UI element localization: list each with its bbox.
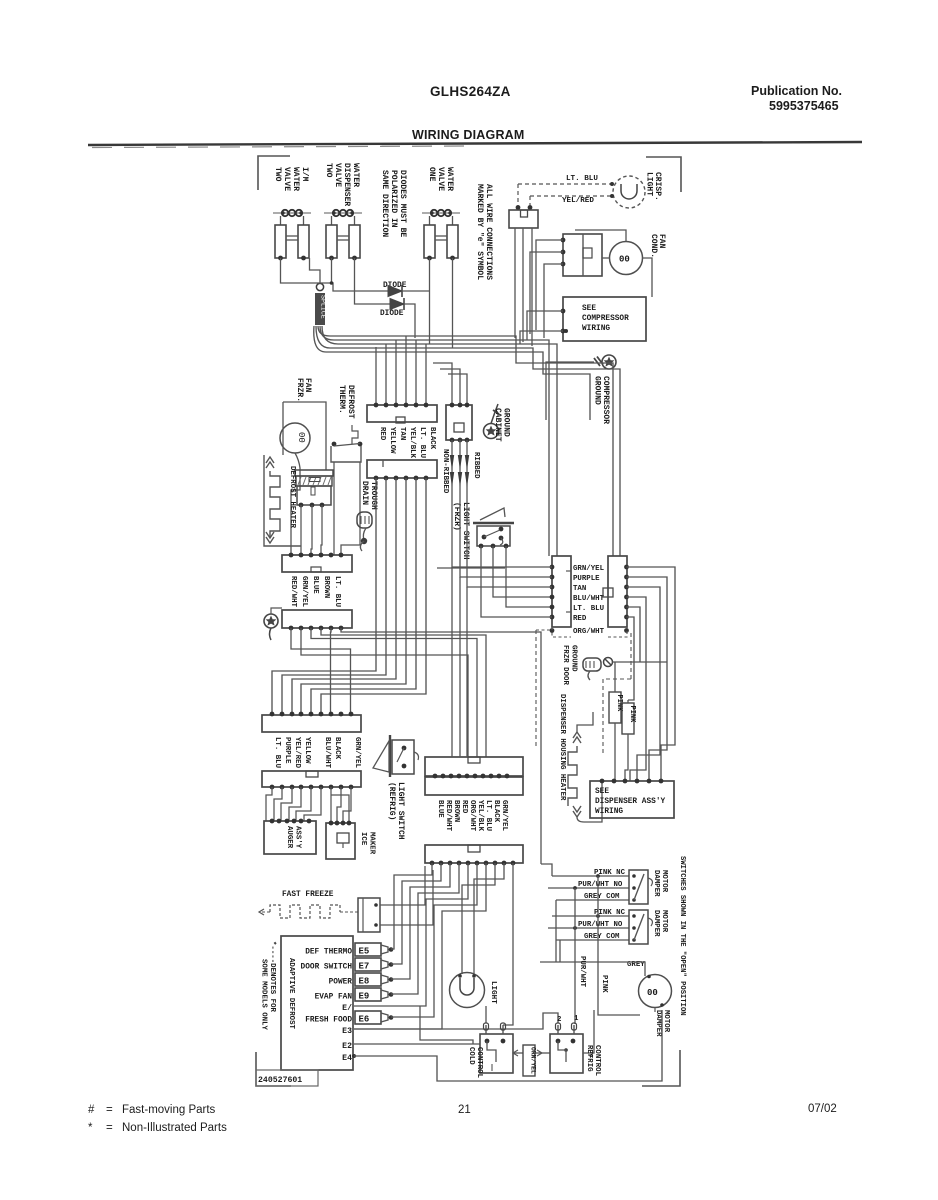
svg-text:TWO: TWO: [273, 167, 282, 182]
svg-text:YEL/RED: YEL/RED: [562, 197, 594, 205]
svg-text:ADAPTIVE DEFROST: ADAPTIVE DEFROST: [287, 958, 295, 1030]
light switch frzr: [473, 508, 514, 548]
svg-text:DISPENSER ASS'Y: DISPENSER ASS'Y: [595, 798, 666, 806]
connector block5 10-pin: [425, 757, 523, 795]
svg-text:DEFROST: DEFROST: [346, 385, 355, 419]
svg-text:RIBBED: RIBBED: [472, 452, 480, 479]
frame corner bottom-left: [256, 1052, 291, 1086]
svg-text:DAMPER: DAMPER: [654, 1010, 662, 1037]
svg-text:WATER: WATER: [445, 167, 454, 191]
svg-text:SOME MODELS ONLY: SOME MODELS ONLY: [260, 959, 268, 1031]
svg-text:LT. BLU: LT. BLU: [418, 427, 426, 458]
svg-text:*: *: [88, 1122, 93, 1134]
svg-text:TAN: TAN: [573, 585, 586, 593]
wires block4 to auger and ice maker: [266, 787, 351, 823]
svg-text:240527601: 240527601: [258, 1076, 302, 1085]
wire valve2 right pin to diode2: [355, 258, 391, 304]
wire valve2 left pin junction: [331, 258, 333, 283]
svg-text:LT. BLU: LT. BLU: [484, 800, 492, 831]
auger assembly box: [264, 819, 316, 854]
svg-text:COMPRESSOR: COMPRESSOR: [582, 315, 629, 323]
svg-text:WIRING: WIRING: [582, 325, 610, 333]
wire valve3 right pin drop: [452, 258, 454, 348]
svg-text:MOTOR: MOTOR: [660, 910, 668, 933]
svg-text:AUGER: AUGER: [285, 826, 293, 849]
cond fan feed wires: [561, 238, 566, 243]
diode D1: [383, 282, 430, 297]
svg-text:LT. BLU: LT. BLU: [273, 737, 281, 768]
terminal E7: [301, 958, 394, 972]
svg-text:GRN/YEL: GRN/YEL: [500, 800, 508, 832]
svg-text:GLHS264ZA: GLHS264ZA: [430, 84, 511, 99]
svg-text:DEFROST HEATER: DEFROST HEATER: [288, 466, 296, 529]
svg-text:I/M: I/M: [300, 167, 309, 182]
connector A 6-pin: [367, 403, 437, 423]
frzr door ground: [583, 658, 667, 681]
svg-text:E9: E9: [359, 992, 370, 1002]
wires heater pins to block1: [300, 505, 302, 555]
svg-text:COLD: COLD: [467, 1047, 475, 1065]
solenoid valve V2 water dispenser valve two: [324, 210, 362, 261]
svg-text:TWO: TWO: [324, 163, 333, 178]
defrost heater element assembly: [295, 470, 333, 507]
frzr fan motor: [280, 402, 326, 555]
wires crisp connector to bundle: [514, 228, 516, 338]
connector block3 9-pin: [262, 712, 361, 732]
svg-text:VALVE: VALVE: [282, 167, 291, 191]
svg-text:ORN/YEL: ORN/YEL: [530, 1047, 537, 1074]
wires block2 outgoing: [291, 628, 541, 864]
svg-text:Publication No.: Publication No.: [751, 84, 842, 98]
crisp light lamp: [610, 176, 645, 208]
svg-text:LIGHT: LIGHT: [645, 172, 654, 196]
svg-text:GRN/YEL: GRN/YEL: [300, 576, 308, 608]
svg-text:WATER: WATER: [291, 167, 300, 191]
svg-text:Non-Illustrated Parts: Non-Illustrated Parts: [122, 1122, 227, 1134]
wire E2 run: [354, 1043, 480, 1045]
svg-text:BLACK: BLACK: [333, 737, 341, 760]
splice label PINK 1: [609, 662, 623, 781]
svg-text:YELLOW: YELLOW: [303, 737, 311, 764]
solenoid valve V1 I/M water valve two: [273, 210, 311, 261]
svg-text:FAN: FAN: [303, 378, 312, 393]
svg-text:POWER: POWER: [329, 979, 353, 987]
svg-text:WIRING DIAGRAM: WIRING DIAGRAM: [412, 128, 525, 142]
wire E4 long run: [352, 1054, 356, 1058]
compressor ground ring terminal: [546, 355, 616, 420]
svg-text:POLARIZED IN: POLARIZED IN: [389, 170, 398, 228]
connector C drain trough: [367, 460, 437, 480]
dispenser housing heater zigzag: [568, 712, 602, 822]
connector block4 9-pin: [262, 771, 361, 789]
svg-text:THERM.: THERM.: [337, 385, 346, 414]
svg-text:MARKED BY "e" SYMBOL: MARKED BY "e" SYMBOL: [475, 184, 484, 280]
svg-text:RED: RED: [573, 615, 587, 623]
svg-text:RED/WHT: RED/WHT: [444, 800, 452, 832]
svg-text:PURPLE: PURPLE: [283, 737, 291, 764]
svg-text:07/02: 07/02: [808, 1103, 837, 1115]
svg-text:REFRIG: REFRIG: [585, 1045, 593, 1072]
main harness bundle: [314, 326, 620, 556]
wires out of door connector staircase: [627, 567, 676, 781]
svg-text:WIRING: WIRING: [595, 808, 623, 816]
svg-text:YELLOW: YELLOW: [388, 427, 396, 454]
crisp light connector: [509, 210, 538, 228]
fast freeze connector: [358, 898, 380, 932]
defrost thermostat: [331, 425, 362, 555]
svg-text:BLUE: BLUE: [311, 576, 319, 594]
center spine to block3: [272, 478, 426, 714]
svg-text:DIODE: DIODE: [380, 310, 404, 318]
dispenser housing dashed boundary: [536, 630, 631, 755]
wire valve3 left pin drop: [429, 258, 431, 344]
part number 240527601: [256, 1070, 318, 1086]
svg-text:CONTROL: CONTROL: [593, 1045, 601, 1077]
svg-text:ORG/WHT: ORG/WHT: [573, 628, 605, 636]
wire valve1 left pin to diode1: [281, 258, 389, 291]
svg-text:VALVE: VALVE: [333, 163, 342, 187]
svg-text:WATER: WATER: [351, 163, 360, 187]
svg-text:21: 21: [458, 1104, 471, 1116]
svg-text:SWITCHES SHOWN IN THE "OPEN" P: SWITCHES SHOWN IN THE "OPEN" POSITION: [678, 856, 686, 1016]
svg-text:E5: E5: [359, 947, 370, 957]
title underline rule: [88, 142, 862, 145]
damper motor: [639, 975, 672, 1013]
frame corner top-right: [646, 157, 681, 192]
wires feeding damper switches: [541, 864, 600, 962]
svg-text:MOTOR: MOTOR: [660, 870, 668, 893]
splice symbol: [315, 283, 327, 325]
solenoid valve V3 water valve one: [422, 210, 460, 261]
svg-text:SEE: SEE: [595, 788, 609, 796]
svg-text:FRZR.: FRZR.: [295, 378, 304, 402]
svg-text:LT. BLU: LT. BLU: [333, 576, 341, 607]
svg-text:GROUND: GROUND: [570, 645, 578, 672]
wire E3 run: [354, 1013, 558, 1029]
svg-text:00: 00: [296, 432, 306, 443]
svg-text:DAMPER: DAMPER: [652, 870, 660, 897]
svg-text:DEF THERMO: DEF THERMO: [305, 949, 352, 957]
frame corner bottom-right: [642, 1050, 680, 1086]
svg-text:VALVE: VALVE: [436, 167, 445, 191]
svg-text:RED: RED: [378, 427, 386, 441]
cold control thermostat: [480, 1023, 513, 1073]
svg-text:00: 00: [619, 255, 630, 265]
svg-text:DOOR SWITCH: DOOR SWITCH: [301, 964, 353, 972]
svg-text:DRAIN: DRAIN: [360, 481, 369, 505]
svg-text:5995375465: 5995375465: [769, 99, 839, 113]
svg-text:LT. BLU: LT. BLU: [566, 175, 598, 183]
ice maker box: [326, 821, 355, 859]
wires block6 to E terminals and loads: [354, 863, 513, 1029]
svg-text:BROWN: BROWN: [452, 800, 460, 822]
svg-text:PINK: PINK: [600, 975, 608, 993]
svg-text:MOTOR: MOTOR: [662, 1010, 670, 1033]
svg-text:GRN/YEL: GRN/YEL: [353, 737, 361, 769]
connector block1: [282, 553, 352, 572]
svg-text:YEL/BLK: YEL/BLK: [476, 800, 484, 832]
drain trough heater coil: [357, 512, 372, 551]
light switch frzr wires: [480, 546, 482, 612]
defrost ground terminal: [264, 608, 282, 640]
svg-text:DISPENSER HOUSING HEATER: DISPENSER HOUSING HEATER: [558, 694, 566, 801]
svg-text:NON-RIBBED: NON-RIBBED: [441, 449, 449, 494]
cond fan motor: [575, 230, 652, 297]
svg-text:BLACK: BLACK: [492, 800, 500, 823]
connector block2: [282, 610, 352, 630]
svg-text:BLU/WHT: BLU/WHT: [323, 737, 331, 769]
svg-text:YEL/BLK: YEL/BLK: [408, 427, 416, 459]
bundle drops to connector B: [433, 363, 467, 404]
svg-text:FRESH FOOD: FRESH FOOD: [305, 1017, 352, 1025]
svg-text:PURPLE: PURPLE: [573, 575, 600, 583]
svg-text:=: =: [106, 1104, 113, 1116]
svg-text:E/: E/: [342, 1003, 352, 1013]
svg-text:ALL WIRE CONNECTIONS: ALL WIRE CONNECTIONS: [484, 184, 493, 280]
ORG/WHT dashed row: [550, 628, 555, 633]
svg-text:LT. BLU: LT. BLU: [573, 605, 604, 613]
wire valve1 right pin to splice: [310, 258, 321, 283]
connector B 3-pin: [446, 403, 472, 443]
wires fast freeze connector: [380, 866, 425, 905]
svg-text:DIODES MUST BE: DIODES MUST BE: [398, 170, 407, 237]
damper motor switch 1: [548, 869, 652, 904]
svg-text:MAKER: MAKER: [368, 832, 376, 855]
cond fan relay box: [563, 234, 602, 276]
svg-text:#: #: [88, 1104, 95, 1116]
dashed drops to lamp connector: [517, 184, 519, 206]
svg-text:FAST FREEZE: FAST FREEZE: [282, 891, 334, 899]
svg-text:DAMPER: DAMPER: [652, 910, 660, 937]
svg-text:(REFRIG): (REFRIG): [387, 782, 396, 820]
svg-text:FAN: FAN: [657, 234, 666, 249]
svg-text:ASS'Y: ASS'Y: [294, 826, 302, 849]
SEE DISPENSER ASS'Y WIRING box: [590, 779, 674, 818]
door connector right half: [603, 556, 629, 627]
svg-text:Fast-moving Parts: Fast-moving Parts: [122, 1104, 216, 1116]
splice label PINK 2: [622, 700, 636, 781]
compressor box feed wires: [561, 309, 566, 314]
svg-text:ICE: ICE: [359, 832, 367, 846]
svg-text:YEL/RED: YEL/RED: [293, 737, 301, 769]
svg-text:BLACK: BLACK: [428, 427, 436, 450]
svg-text:PINK: PINK: [628, 706, 636, 724]
door connector left half: [550, 556, 571, 627]
svg-text:SAME DIRECTION: SAME DIRECTION: [380, 170, 389, 237]
svg-text:E4: E4: [342, 1054, 352, 1063]
adaptive defrost control board box: [281, 936, 353, 1070]
svg-text:COND.: COND.: [649, 234, 658, 258]
svg-text:EVAP FAN: EVAP FAN: [315, 994, 353, 1002]
svg-text:SPLICE: SPLICE: [320, 295, 327, 319]
svg-text:FRZR DOOR: FRZR DOOR: [561, 645, 569, 685]
SEE COMPRESSOR WIRING box: [563, 297, 646, 341]
wires into door connector from ribbed: [452, 492, 552, 757]
svg-text:SEE: SEE: [582, 305, 596, 313]
svg-text:GROUND: GROUND: [593, 376, 602, 405]
ribbed wire marks: [450, 440, 469, 492]
svg-text:E3: E3: [342, 1027, 352, 1036]
defrost heater zigzag resistor: [264, 455, 301, 546]
svg-text:ORG/WHT: ORG/WHT: [468, 800, 476, 832]
svg-text:LIGHT SWITCH: LIGHT SWITCH: [461, 502, 470, 560]
svg-text:RED: RED: [460, 800, 468, 814]
svg-text:E6: E6: [359, 1015, 370, 1025]
svg-text:00: 00: [647, 988, 658, 998]
svg-text:GRN/YEL: GRN/YEL: [573, 565, 605, 573]
svg-text:PUR/WHT: PUR/WHT: [578, 956, 586, 988]
svg-text:E8: E8: [359, 977, 370, 987]
terminal E8: [329, 973, 394, 987]
light switch refrig: [373, 735, 419, 777]
svg-text:BROWN: BROWN: [322, 576, 330, 598]
svg-text:ONE: ONE: [427, 167, 436, 182]
cabinet ground terminal: [484, 404, 500, 439]
terminal E9: [315, 988, 394, 1002]
svg-text:LIGHT: LIGHT: [489, 981, 497, 1004]
svg-text:RED/WHT: RED/WHT: [289, 576, 297, 608]
svg-text:2: 2: [557, 1016, 561, 1024]
svg-text:CONTROL: CONTROL: [475, 1047, 483, 1079]
refrig control thermostat: [550, 1010, 594, 1073]
splice ORN/YEL: [513, 1045, 550, 1076]
damper motor switch 2: [548, 909, 652, 944]
svg-text:DISPENSER: DISPENSER: [342, 163, 351, 206]
svg-text:*----DENOTES FOR: *----DENOTES FOR: [268, 941, 276, 1013]
terminal E5: [305, 943, 393, 957]
wire E1 to cold control: [420, 1006, 473, 1044]
terminal E6: [305, 1011, 393, 1025]
frame corner top-left: [258, 156, 290, 190]
svg-text:GROUND: GROUND: [502, 408, 511, 437]
svg-text:CABINET: CABINET: [493, 408, 502, 442]
svg-text:1: 1: [574, 1015, 579, 1023]
svg-text:TAN: TAN: [398, 427, 406, 440]
diode D2: [380, 298, 415, 338]
svg-text:BLUE: BLUE: [436, 800, 444, 818]
refrigerator light lamp: [450, 973, 485, 1008]
svg-text:LIGHT SWITCH: LIGHT SWITCH: [396, 782, 405, 840]
bundle drops to connector A: [376, 336, 426, 404]
connector block6 10-pin: [425, 845, 523, 865]
svg-text:BLU/WHT: BLU/WHT: [573, 595, 605, 603]
svg-text:=: =: [106, 1122, 113, 1134]
svg-text:E2: E2: [342, 1042, 352, 1051]
svg-text:E7: E7: [359, 962, 370, 972]
fast freeze dashed resistor: [259, 905, 358, 918]
